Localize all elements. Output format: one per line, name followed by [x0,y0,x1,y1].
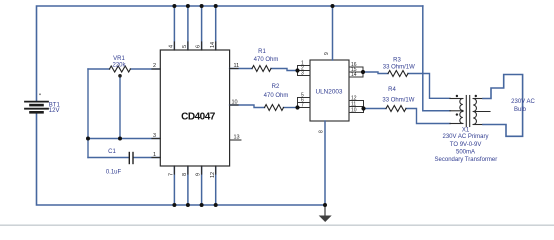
svg-text:12: 12 [210,172,216,178]
svg-text:470 Ohm: 470 Ohm [264,93,289,99]
svg-text:230V AC Primary: 230V AC Primary [442,134,488,140]
separator line bottom [0,224,554,226]
ULN2003 pin number labels [301,52,357,133]
wire CD4047 bottom pin 9 [201,166,203,205]
wire CD4047 bottom pin 12 [215,166,217,205]
svg-text:220k: 220k [112,63,126,69]
svg-text:VR1: VR1 [113,56,125,62]
wire ULN2003 pin 8 to ground rail [324,121,326,205]
svg-text:Bulb: Bulb [514,107,527,113]
svg-text:5: 5 [182,45,188,48]
ULN2003 output group pins 12 11 10 [349,101,364,113]
wire ULN outputs to R3 [363,72,388,74]
capacitor C1 [129,153,133,164]
wire top +12V rail [37,6,423,101]
wire ULN2003 pin 9 to +12V rail [332,6,334,60]
svg-text:9: 9 [324,52,330,55]
wire pin 10 to R2 [230,105,265,108]
CD4047 pin 13 stub [230,139,241,141]
svg-text:7: 7 [301,103,304,109]
node junction dots pin3 line [86,137,122,141]
svg-text:0.1uF: 0.1uF [106,170,122,176]
wire left loop vertical [87,69,89,158]
battery BT1 [25,93,60,113]
resistor R3 33 Ohm/1W [388,71,408,77]
wire pin 3 horizontal [88,138,160,140]
wire CD4047 bottom pin 7 [173,166,175,205]
svg-text:500mA: 500mA [456,150,475,156]
svg-text:9: 9 [196,173,202,176]
wire black pin stubs CD4047 [152,42,238,174]
wire transformer centre tap from +12V rail [423,6,450,111]
svg-text:7: 7 [169,173,175,176]
node junction dots top rail [172,4,334,8]
ULN2003 input group pins 5 6 7 [298,98,311,108]
svg-text:14: 14 [351,72,357,78]
resistor VR1 220k potentiometer [110,66,131,78]
resistor R1 470 Ohm [252,66,271,72]
wire C1 to pin 1 [88,157,128,159]
svg-text:3: 3 [301,71,304,77]
wire pin 11 to R1 [230,68,252,70]
ULN2003 input group pins 1 2 3 [298,66,311,76]
svg-text:8: 8 [319,130,325,133]
svg-text:R1: R1 [258,49,266,55]
svg-text:C1: C1 [108,149,116,155]
svg-text:Secondary Transformer: Secondary Transformer [435,157,498,163]
svg-text:R3: R3 [393,58,401,64]
svg-text:230V AC: 230V AC [511,99,535,105]
ground [319,205,332,222]
wire ULN outputs to R4 [364,108,387,110]
svg-text:33 Ohm/1W: 33 Ohm/1W [382,98,414,104]
svg-text:CD4047: CD4047 [181,111,216,122]
wire load loop 230V AC bulb [483,75,523,137]
svg-text:6: 6 [196,45,202,48]
op-amp U1 CD4047 IC body [160,50,229,166]
node junction dots bottom rail [172,203,327,207]
svg-text:ULN2003: ULN2003 [315,88,342,95]
wire CD4047 top pin 5 [187,6,189,50]
svg-text:R2: R2 [272,84,280,90]
wire VR1 wiper down [119,76,121,139]
svg-text:TO 9V-0-9V: TO 9V-0-9V [450,142,482,148]
transformer X1 [450,95,490,127]
wire CD4047 bottom pin 8 [187,166,189,205]
resistor R4 33 Ohm/1W [386,106,406,112]
wire CD4047 top pin 14 [215,6,217,50]
svg-text:10: 10 [351,108,357,114]
svg-text:12V: 12V [49,108,60,114]
svg-text:4: 4 [169,45,175,48]
svg-text:X1: X1 [462,128,470,134]
wire VR1 to pin 2 [88,68,110,70]
svg-text:2: 2 [153,63,156,69]
svg-text:8: 8 [182,173,188,176]
transistor array U2 ULN2003 IC body [310,60,349,121]
wire CD4047 top pin 6 [201,6,203,50]
CD4047 pin number labels [153,42,240,178]
wire CD4047 top pin 4 [173,6,175,50]
svg-text:R4: R4 [388,87,396,93]
wire bottom 0V rail [37,113,326,206]
svg-text:14: 14 [210,42,216,48]
ULN2003 output group pins 16 15 14 [349,67,363,77]
node junction dots ULN brackets [295,68,365,110]
svg-text:33 Ohm/1W: 33 Ohm/1W [383,65,415,71]
resistor R2 470 Ohm [265,105,284,111]
svg-text:470 Ohm: 470 Ohm [254,57,279,63]
